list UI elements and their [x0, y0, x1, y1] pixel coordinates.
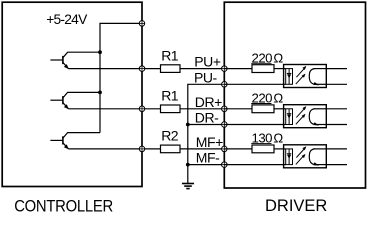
- resistor R1 (DR): [161, 105, 181, 113]
- terminal circle PU- on driver edge: [221, 81, 227, 87]
- terminal circle DR+ on controller edge: [139, 106, 145, 112]
- opto U3: [284, 145, 327, 168]
- resistor R2 (MF): [161, 145, 181, 153]
- terminal circle MF- on driver edge: [221, 162, 227, 168]
- svg-text:PU-: PU-: [194, 69, 218, 85]
- wire driver PU- to opto: [224, 83, 285, 85]
- junction dot DR-: [186, 123, 190, 127]
- opto U1 output wires: [326, 68, 347, 70]
- svg-text:MF-: MF-: [196, 150, 220, 166]
- terminal circle PU+ on driver edge: [221, 66, 227, 72]
- wire DR- row: [188, 124, 225, 126]
- svg-text:Ω: Ω: [273, 50, 283, 65]
- svg-text:R2: R2: [161, 128, 179, 144]
- wire PU+ row (emitter to controller edge): [68, 68, 160, 70]
- ground: [182, 184, 194, 189]
- svg-text:R1: R1: [161, 88, 179, 104]
- resistor 220ohm (PU): [252, 65, 274, 73]
- resistor R1 (PU): [161, 65, 181, 73]
- driver box: [224, 2, 365, 188]
- svg-text:R1: R1: [161, 47, 179, 63]
- junction dot MF-: [186, 163, 190, 167]
- wire driver DR- to opto: [224, 124, 285, 126]
- junction dot Q1 collector: [98, 50, 102, 54]
- svg-text:DR+: DR+: [195, 94, 222, 110]
- svg-text:CONTROLLER: CONTROLLER: [14, 198, 113, 216]
- opto U2 output wires: [326, 108, 347, 110]
- svg-text:MF+: MF+: [196, 134, 223, 150]
- svg-text:PU+: PU+: [194, 54, 221, 70]
- terminal circle MF+ on controller edge: [139, 146, 145, 152]
- wire R2 to driver: [180, 148, 224, 150]
- opto U3 output wires: [326, 148, 347, 150]
- terminal circle DR- on driver edge: [221, 122, 227, 128]
- wire 130ohm to opto MF: [274, 148, 286, 150]
- wire driver MF- to opto: [224, 164, 285, 166]
- transistor Q2: [50, 92, 100, 108]
- wire 220ohm to opto DR: [274, 108, 286, 110]
- svg-text:Ω: Ω: [273, 131, 283, 146]
- wire R1 to driver: [180, 108, 224, 110]
- terminal circle MF+ on driver edge: [221, 146, 227, 152]
- wire PU- row: [188, 84, 225, 183]
- Q3 emitter arrow: [64, 144, 69, 149]
- opto U2: [284, 105, 327, 128]
- wire driver MF+ to 130ohm resistor: [224, 148, 252, 150]
- opto U1: [284, 65, 327, 88]
- controller box: [2, 2, 142, 186]
- wire +5-24V horizontal and +5V vertical rail: [100, 23, 142, 132]
- svg-text:Ω: Ω: [273, 91, 283, 106]
- wire DR+ row (emitter to controller edge): [68, 108, 160, 110]
- wire driver PU+ to 220ohm resistor: [224, 68, 252, 70]
- svg-text:+5-24V: +5-24V: [46, 12, 88, 27]
- terminal circle PU+ on controller edge: [139, 66, 145, 72]
- svg-text:DR-: DR-: [195, 110, 219, 126]
- Q1 emitter arrow: [64, 64, 69, 69]
- Q2 emitter arrow: [64, 104, 69, 109]
- transistor Q1: [50, 52, 100, 68]
- wire MF+ row (emitter to controller edge): [68, 148, 160, 150]
- transistor Q3: [50, 133, 100, 149]
- wire MF- row: [188, 164, 225, 166]
- wire R1 to driver: [180, 68, 224, 70]
- wire driver DR+ to 220ohm resistor: [224, 108, 252, 110]
- terminal circle DR+ on driver edge: [221, 106, 227, 112]
- resistor 220ohm (DR): [252, 105, 274, 113]
- wire 220ohm to opto PU: [274, 68, 286, 70]
- terminal circle +5V on controller edge: [139, 21, 145, 27]
- junction dot Q2 collector: [98, 91, 102, 95]
- svg-text:DRIVER: DRIVER: [265, 197, 327, 215]
- resistor 130ohm (MF): [252, 145, 274, 153]
